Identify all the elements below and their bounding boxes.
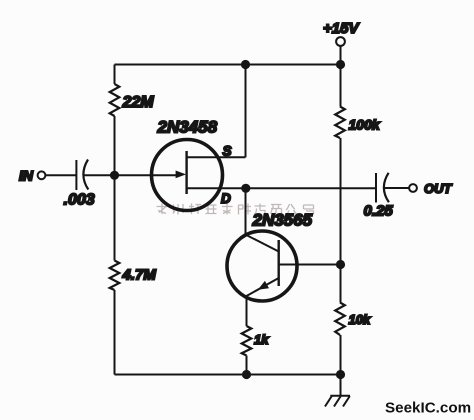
svg-text:.003: .003 — [64, 192, 95, 209]
wire left rail — [114, 65, 116, 375]
node emitter rail junction — [242, 370, 251, 379]
svg-text:0.25: 0.25 — [364, 203, 394, 220]
transistor Q2 2N3565 — [227, 211, 341, 302]
node ground junction — [336, 370, 345, 379]
wire input stub — [46, 174, 76, 176]
svg-text:1k: 1k — [254, 332, 269, 347]
terminal +15V — [323, 20, 360, 65]
watermark chinese text — [157, 204, 314, 215]
wire top rail — [115, 64, 341, 66]
svg-text:+15V: +15V — [323, 20, 360, 37]
svg-text:2N3458: 2N3458 — [157, 118, 218, 137]
wire emitter to bottom rail — [246, 356, 248, 375]
svg-text:22M: 22M — [122, 94, 155, 111]
resistor R1 22M — [110, 84, 155, 116]
node drain junction — [241, 184, 250, 193]
node base junction — [336, 260, 345, 269]
resistor R4 10k — [335, 303, 371, 336]
svg-text:S: S — [223, 144, 232, 159]
svg-text:2N3565: 2N3565 — [252, 211, 313, 230]
wire gate — [83, 174, 177, 176]
wire source to supply rail — [245, 65, 247, 158]
svg-text:4.7M: 4.7M — [122, 267, 157, 284]
svg-text:10k: 10k — [349, 312, 371, 327]
node gate junction — [110, 171, 119, 180]
ground — [325, 375, 350, 407]
svg-text:D: D — [221, 191, 231, 206]
wire output stub — [384, 187, 410, 189]
transistor Q1 2N3458 — [152, 118, 247, 211]
resistor R3 100k — [335, 107, 381, 139]
node source rail junction — [241, 60, 250, 69]
resistor R2 4.7M — [110, 261, 157, 291]
wire right rail — [340, 65, 342, 375]
capacitor C1 .003 — [64, 160, 95, 209]
svg-text:OUT: OUT — [424, 181, 453, 196]
resistor R5 1k — [242, 326, 270, 356]
capacitor C2 0.25 — [364, 173, 394, 220]
svg-text:100k: 100k — [349, 117, 381, 133]
svg-text:SeekIC.com: SeekIC.com — [385, 400, 471, 417]
wire bottom rail — [115, 374, 341, 376]
node supply junction — [336, 60, 345, 69]
terminal OUT — [409, 181, 452, 196]
wire emitter — [246, 295, 248, 326]
wire drain output line — [246, 187, 376, 189]
svg-text:IN: IN — [19, 168, 34, 184]
wire collector — [245, 188, 247, 236]
terminal IN — [19, 168, 45, 184]
